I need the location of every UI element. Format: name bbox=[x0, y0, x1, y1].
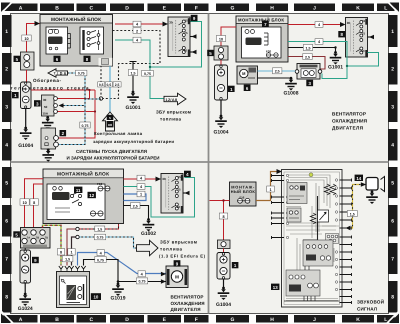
svg-text:МОНТАЖНЫЙ БЛОК: МОНТАЖНЫЙ БЛОК bbox=[238, 17, 284, 22]
horn ground bbox=[366, 190, 378, 204]
label 5 bbox=[14, 56, 21, 62]
label 4 TR teal bbox=[315, 39, 323, 45]
relay 3 TL bbox=[42, 95, 58, 116]
svg-text:H: H bbox=[270, 5, 274, 11]
label 6 (starter TR) bbox=[244, 85, 251, 91]
heater caption bbox=[11, 78, 89, 90]
right grid row label 1 bbox=[388, 15, 398, 47]
wire generator to ground bbox=[25, 109, 27, 129]
wire gauge labels 0.5 0.5 2.5 bbox=[98, 82, 121, 87]
EFI caption BL bbox=[159, 240, 206, 259]
svg-text:0,75: 0,75 bbox=[97, 258, 104, 262]
svg-text:6: 6 bbox=[391, 219, 394, 225]
indicator lamp dot bbox=[309, 173, 313, 177]
svg-text:12: 12 bbox=[89, 193, 94, 198]
label 0.75 black lower bbox=[136, 278, 147, 284]
svg-text:8: 8 bbox=[33, 201, 35, 205]
left grid row label 7 bbox=[2, 243, 12, 274]
wire cyan starter to alternator bbox=[258, 70, 296, 72]
top grid column label K bbox=[342, 4, 374, 12]
wire teal switch loop TR bbox=[347, 53, 379, 67]
svg-text:C: C bbox=[89, 317, 93, 323]
switch unit right pin stubs bbox=[340, 179, 352, 305]
svg-text:1: 1 bbox=[140, 193, 142, 197]
wire teal fan feed TR bbox=[288, 42, 347, 79]
wire red fuse to battery BR bbox=[223, 249, 225, 253]
bottom grid column label H bbox=[256, 315, 288, 323]
fuse link BR bbox=[218, 240, 231, 249]
svg-text:G1019: G1019 bbox=[110, 296, 125, 302]
svg-text:СИГНАЛ: СИГНАЛ bbox=[357, 307, 377, 312]
junction bbox=[88, 89, 90, 91]
switch unit inner wiring mesh bbox=[286, 175, 339, 301]
ignition sub-box in TL mounting block bbox=[80, 27, 104, 54]
svg-text:F: F bbox=[195, 317, 198, 323]
svg-text:ВЕНТИЛЯТОР: ВЕНТИЛЯТОР bbox=[171, 295, 204, 300]
label 1 blue BL bbox=[137, 191, 145, 197]
heater relay ground bbox=[42, 148, 54, 161]
svg-text:K: K bbox=[356, 5, 360, 11]
wire red fuse to generator bbox=[26, 70, 28, 82]
label 8 (ignition sub-box) bbox=[84, 56, 91, 62]
switch unit internal bus wires bbox=[284, 266, 340, 301]
svg-text:G1004: G1004 bbox=[213, 130, 228, 136]
switch stub pin 75 BL bbox=[183, 191, 190, 195]
fuse bottom BL bbox=[90, 211, 103, 216]
svg-text:G1001: G1001 bbox=[125, 105, 140, 111]
wire red block to fuse box left B bbox=[34, 184, 44, 228]
label 1 (battery TR) bbox=[228, 86, 235, 92]
switch unit inner panel 4 bbox=[286, 270, 320, 296]
svg-text:J: J bbox=[313, 5, 316, 11]
label 5 BL bbox=[13, 231, 20, 237]
right grid row label 3 bbox=[388, 91, 398, 122]
svg-text:15A: 15A bbox=[43, 112, 49, 116]
label 0.75 on teal bbox=[142, 71, 154, 77]
svg-text:B: B bbox=[55, 5, 59, 11]
label 4 blue upper bbox=[97, 250, 104, 256]
svg-text:3: 3 bbox=[5, 104, 8, 110]
svg-text:ОХЛАЖДЕНИЯ: ОХЛАЖДЕНИЯ bbox=[171, 301, 205, 306]
wire connector to generator BL bbox=[24, 248, 26, 250]
wire teal ignition switch loop TL bbox=[150, 22, 202, 68]
battery ground wire TR bbox=[220, 100, 222, 116]
charge lamp callout arrow bbox=[103, 112, 118, 131]
svg-text:G1008: G1008 bbox=[283, 91, 298, 97]
wire cyan-dash 0.75 to heater relay bbox=[58, 99, 101, 145]
wire black block to G1002 bbox=[124, 206, 149, 220]
relay ground bbox=[42, 116, 54, 130]
switch unit left pin stubs bbox=[272, 174, 285, 239]
ground G1004 TR bbox=[213, 115, 228, 136]
starter 10 BL bbox=[57, 272, 90, 308]
svg-text:5: 5 bbox=[391, 180, 394, 186]
wire teal block to switch loop BL bbox=[124, 178, 195, 218]
fuse holder 5 BL bbox=[21, 228, 51, 249]
svg-text:0,75: 0,75 bbox=[144, 72, 151, 76]
svg-text:G1024: G1024 bbox=[18, 306, 33, 312]
system caption TL bbox=[67, 149, 160, 160]
svg-text:G1001: G1001 bbox=[328, 65, 343, 71]
top grid column label C bbox=[77, 4, 107, 12]
wire red fuse to battery TR bbox=[220, 60, 222, 65]
left grid row label 5 bbox=[2, 167, 12, 198]
junction bbox=[334, 46, 336, 48]
svg-text:МОНТАЖНЫЙ БЛОК: МОНТАЖНЫЙ БЛОК bbox=[57, 170, 109, 177]
svg-text:8: 8 bbox=[391, 295, 394, 301]
junction teal TR bbox=[346, 65, 348, 67]
bottom grid column label G bbox=[216, 315, 249, 323]
svg-text:H: H bbox=[270, 317, 274, 323]
top grid column label A bbox=[4, 4, 38, 12]
right grid row label 8 bbox=[388, 281, 398, 313]
charge lamp caption bbox=[93, 131, 174, 144]
label 2.5 TR bbox=[303, 54, 312, 60]
wire blue loop BL bbox=[124, 194, 147, 201]
fuse link 5 TL bbox=[21, 52, 35, 70]
wire red drop to relay pin 30 bbox=[58, 90, 90, 99]
switch unit inner panel 3 bbox=[303, 240, 333, 266]
svg-text:ОХЛАЖДЕНИЯ: ОХЛАЖДЕНИЯ bbox=[332, 119, 368, 124]
svg-text:5: 5 bbox=[5, 180, 8, 186]
svg-text:ЗВУКОВОЙ: ЗВУКОВОЙ bbox=[357, 299, 384, 305]
label 4 on red bbox=[133, 21, 141, 27]
svg-text:2: 2 bbox=[391, 67, 394, 73]
svg-text:0,75: 0,75 bbox=[139, 280, 146, 284]
wire red-dash junction to block bbox=[78, 224, 119, 230]
label 2 (heater relay) bbox=[60, 130, 67, 136]
wire brown block to column switch bbox=[256, 172, 278, 201]
left grid row label 2 bbox=[2, 53, 12, 85]
label 1.5 on red-dash bbox=[95, 226, 105, 232]
bottom grid column label E bbox=[148, 315, 182, 323]
svg-text:1,5: 1,5 bbox=[97, 228, 102, 232]
label 3 (alternator TR) bbox=[306, 80, 313, 86]
fan motor BL bbox=[166, 266, 188, 288]
svg-text:1: 1 bbox=[5, 29, 8, 35]
svg-text:2,5: 2,5 bbox=[305, 55, 310, 59]
EFI callout arrow 12/A8 bbox=[164, 93, 186, 105]
relay sub-box BL bbox=[47, 184, 105, 220]
label 3 (relay) bbox=[34, 100, 41, 106]
ground G1004 BR bbox=[216, 287, 231, 308]
switch stub pin 75 TR bbox=[368, 35, 375, 39]
svg-text:ДВИГАТЕЛЯ: ДВИГАТЕЛЯ bbox=[171, 307, 201, 312]
label 8 (ignition switch TR) bbox=[338, 31, 345, 37]
label 8 BR bbox=[219, 213, 227, 219]
junction red BR bbox=[222, 199, 224, 201]
bottom grid column label D bbox=[110, 315, 144, 323]
svg-text:0,75: 0,75 bbox=[78, 72, 85, 76]
fuse F19 BL bbox=[97, 182, 110, 191]
svg-text:зарядки аккумуляторной батареи: зарядки аккумуляторной батареи bbox=[93, 139, 174, 144]
wire red feed TR bbox=[221, 27, 236, 46]
label 1.5 TR bbox=[303, 45, 312, 51]
svg-text:12/A8: 12/A8 bbox=[166, 98, 178, 102]
svg-text:МОНТАЖНЫЙ БЛОК: МОНТАЖНЫЙ БЛОК bbox=[51, 16, 101, 23]
svg-text:ЗБУ впрыском: ЗБУ впрыском bbox=[156, 110, 191, 115]
label 1 (battery BR) bbox=[232, 262, 239, 268]
ground G1002 bbox=[141, 218, 156, 237]
connector arrow brown bbox=[277, 169, 283, 174]
label 10 BL bbox=[20, 199, 29, 205]
generator 1 TL bbox=[21, 82, 32, 109]
right grid row label 2 bbox=[388, 53, 398, 85]
connector arrow at switch bbox=[163, 22, 169, 27]
starter connector chevron pins bbox=[59, 266, 86, 269]
svg-text:F19: F19 bbox=[97, 182, 103, 186]
svg-text:0,75: 0,75 bbox=[82, 124, 89, 128]
wire generator to ground BL bbox=[24, 283, 26, 294]
svg-text:СИСТЕМЫ ПУСКА ДВИГАТЕЛЯ: СИСТЕМЫ ПУСКА ДВИГАТЕЛЯ bbox=[76, 149, 147, 154]
border corner bevel bottom-left bbox=[1, 314, 11, 324]
top grid column label D bbox=[110, 4, 144, 12]
switch stub pin 50 bbox=[190, 50, 197, 54]
ground G1008 bbox=[283, 77, 298, 96]
ignition switch 9 TL bbox=[168, 17, 190, 57]
connector arrow into block TL bbox=[35, 21, 41, 26]
label 1.5 starter wire bbox=[62, 256, 73, 262]
label 4 on teal bbox=[133, 37, 141, 43]
ground G1019 bbox=[110, 283, 125, 302]
fuse link 5 TR bbox=[214, 46, 228, 60]
border corner bevel top-right bbox=[390, 3, 400, 13]
wire label 10 bbox=[22, 35, 31, 41]
svg-text:0,5: 0,5 bbox=[107, 83, 112, 87]
svg-text:6: 6 bbox=[5, 219, 8, 225]
bottom grid column label K bbox=[342, 315, 374, 323]
relay sub-box in TL mounting block bbox=[46, 27, 71, 54]
svg-text:8: 8 bbox=[5, 295, 8, 301]
alternator 3 TR bbox=[295, 64, 322, 80]
EFI callout arrow BL bbox=[137, 240, 159, 255]
svg-text:14: 14 bbox=[356, 176, 361, 181]
svg-text:1: 1 bbox=[70, 251, 72, 255]
ignition switch 4 BL bbox=[161, 174, 183, 214]
switch unit left rail contact circles bbox=[286, 174, 288, 238]
left grid row label 4 bbox=[2, 129, 12, 161]
label 1.5 yellow bbox=[347, 211, 357, 217]
junction teal bbox=[149, 66, 151, 68]
label 12 bbox=[88, 192, 96, 198]
starter motor 6 TR bbox=[237, 66, 258, 84]
wire red block to fuse box left A bbox=[25, 179, 44, 228]
svg-text:1,5: 1,5 bbox=[306, 46, 311, 50]
svg-text:7: 7 bbox=[391, 256, 394, 262]
open junction node bbox=[99, 97, 102, 100]
svg-text:D: D bbox=[125, 5, 129, 11]
ground G1001 TR bbox=[328, 51, 343, 70]
wire striped fusebox to starter bbox=[43, 225, 62, 265]
wire cyan charge-lamp from block bbox=[109, 66, 111, 112]
border corner bevel bottom-right bbox=[390, 314, 400, 324]
svg-text:Контрольная лампа: Контрольная лампа bbox=[94, 131, 143, 136]
svg-text:ЗБУ впрыском: ЗБУ впрыском bbox=[160, 240, 197, 245]
svg-text:M: M bbox=[175, 274, 179, 279]
label 0.75 black upper bbox=[95, 257, 106, 263]
bottom grid column label L bbox=[377, 315, 395, 323]
svg-text:8: 8 bbox=[222, 215, 224, 219]
EFI caption TL bbox=[156, 110, 191, 122]
top grid column label B bbox=[40, 4, 74, 12]
heater relay 2 TL bbox=[41, 128, 58, 149]
wire dark junction to starter bbox=[72, 237, 78, 266]
label 14 (horn) bbox=[355, 175, 363, 181]
svg-text:G1002: G1002 bbox=[141, 231, 156, 237]
svg-text:G1004: G1004 bbox=[216, 302, 231, 308]
connector arrow into horn bbox=[361, 182, 367, 187]
svg-text:топлива: топлива bbox=[160, 116, 182, 121]
wire yellow horn feed bbox=[352, 185, 361, 229]
svg-text:3: 3 bbox=[391, 104, 394, 110]
switch unit contact cluster bbox=[326, 234, 339, 244]
svg-text:2: 2 bbox=[136, 29, 138, 33]
switch unit center bus line bbox=[303, 196, 318, 240]
bottom grid column label J bbox=[294, 315, 335, 323]
label 6 (relay) bbox=[54, 56, 61, 62]
label 4 teal BL bbox=[137, 184, 145, 190]
ground G1024 bbox=[18, 293, 33, 312]
svg-text:7D: 7D bbox=[45, 237, 48, 240]
top grid column label L bbox=[377, 4, 395, 12]
label 4 TR red bbox=[315, 22, 323, 28]
svg-text:7A: 7A bbox=[27, 237, 30, 240]
relay sub-box TR bbox=[242, 27, 282, 58]
svg-text:A: A bbox=[19, 5, 23, 11]
svg-text:10: 10 bbox=[219, 37, 223, 41]
svg-text:Обогрева-: Обогрева- bbox=[33, 78, 61, 83]
label 2 on dashed bbox=[133, 28, 141, 34]
left grid row label 6 bbox=[2, 205, 12, 237]
label 8 starter wire bbox=[57, 249, 64, 255]
relay box with arrow bbox=[318, 210, 329, 222]
svg-text:50: 50 bbox=[44, 105, 48, 109]
svg-text:13: 13 bbox=[273, 285, 278, 290]
svg-text:7: 7 bbox=[5, 256, 8, 262]
battery 1 BR bbox=[217, 253, 230, 280]
wire red bus horizontal bbox=[31, 89, 95, 91]
label 8 BL bbox=[30, 199, 38, 205]
svg-text:7B: 7B bbox=[36, 237, 39, 240]
quadrant divider vertical bbox=[208, 14, 210, 314]
svg-text:0,75: 0,75 bbox=[97, 236, 104, 240]
label 1 starter wire bbox=[68, 249, 75, 255]
ground G1004 TL bbox=[18, 127, 33, 149]
svg-text:ДВИГАТЕЛЯ: ДВИГАТЕЛЯ bbox=[332, 126, 364, 131]
svg-text:10: 10 bbox=[22, 201, 26, 205]
svg-text:G: G bbox=[231, 5, 235, 11]
wire maroon block to alternator TR bbox=[288, 57, 325, 71]
svg-text:2,5: 2,5 bbox=[115, 83, 120, 87]
fan caption BL bbox=[171, 295, 205, 312]
right grid row label 6 bbox=[388, 205, 398, 237]
label 2.5 cyan bbox=[273, 68, 282, 74]
label 0.75 on 7/D6 wire bbox=[76, 70, 87, 76]
label 4 blue lower bbox=[138, 271, 145, 277]
wire blue starter to fan motor bbox=[78, 253, 167, 274]
battery 1 TR bbox=[215, 65, 228, 100]
label 1 (generator) bbox=[12, 92, 19, 98]
svg-text:G1004: G1004 bbox=[18, 143, 33, 149]
wire red feed BR bbox=[210, 201, 230, 241]
fan caption TR bbox=[332, 112, 368, 131]
horn caption bbox=[357, 299, 384, 312]
svg-text:G: G bbox=[231, 317, 235, 323]
label 1.5 bbox=[128, 70, 137, 76]
bottom grid column label B bbox=[40, 315, 74, 323]
wire cyan-dash junction to EFI arrow bbox=[78, 237, 137, 248]
svg-text:НЫЙ БЛОК: НЫЙ БЛОК bbox=[231, 189, 256, 194]
svg-text:1,5: 1,5 bbox=[131, 71, 136, 75]
svg-text:30: 30 bbox=[43, 98, 47, 102]
wire red battery feed to block TL bbox=[27, 24, 41, 53]
wire dash from relay pin 50 bbox=[59, 103, 86, 107]
callout arrow 7/D6 bbox=[48, 69, 68, 77]
svg-text:A: A bbox=[19, 317, 23, 323]
wire maroon junction to starter bbox=[67, 229, 78, 266]
switch unit inner panel 2 bbox=[287, 208, 301, 222]
svg-text:10: 10 bbox=[93, 295, 98, 300]
connector arrow TR bbox=[340, 22, 346, 27]
wire black to G1001 TR bbox=[288, 48, 336, 53]
svg-text:4: 4 bbox=[5, 143, 8, 149]
open junction B bbox=[76, 235, 79, 238]
starter internal wire stubs bbox=[61, 269, 84, 284]
label 9 (fan motor BL) bbox=[174, 260, 181, 266]
label 4 red BL bbox=[137, 175, 145, 181]
label 7 (fan relay) bbox=[262, 21, 269, 27]
switch unit right rail contact circles bbox=[335, 179, 337, 291]
svg-text:C: C bbox=[89, 5, 93, 11]
switch stub pin 75 bbox=[190, 34, 197, 38]
right grid row label 5 bbox=[388, 167, 398, 198]
junction bbox=[117, 280, 120, 283]
wire red block to ignition switch TR bbox=[288, 24, 341, 26]
switch unit inner panel 1 bbox=[287, 183, 307, 204]
horn speaker body bbox=[366, 177, 385, 192]
svg-text:7/D6: 7/D6 bbox=[54, 72, 67, 76]
generator 9 BL bbox=[20, 250, 31, 283]
svg-text:10: 10 bbox=[24, 37, 28, 41]
svg-text:D: D bbox=[125, 317, 129, 323]
top grid column label G bbox=[216, 4, 249, 12]
svg-text:0,5: 0,5 bbox=[99, 83, 104, 87]
wire dashed stub up from junction to block notch bbox=[100, 66, 102, 99]
connector arrow BL bbox=[156, 177, 162, 182]
T-cap connector 1.5 wire bbox=[130, 62, 137, 93]
label 13 (column switch unit) bbox=[271, 284, 279, 290]
svg-text:11: 11 bbox=[76, 188, 81, 193]
label 2.5 BL bbox=[131, 203, 140, 209]
right grid row label 4 bbox=[388, 129, 398, 161]
wire red block to ignition switch BL bbox=[124, 178, 157, 180]
svg-text:(1.3 EFI Endura E): (1.3 EFI Endura E) bbox=[159, 254, 206, 259]
battery ground BR bbox=[223, 279, 225, 288]
label 10 (starter BL) bbox=[91, 293, 101, 300]
wire red block to ignition switch TL bbox=[115, 23, 164, 25]
svg-text:И ЗАРЯДКИ АККУМУЛЯТОРНОЙ БАТАР: И ЗАРЯДКИ АККУМУЛЯТОРНОЙ БАТАРЕИ bbox=[67, 154, 160, 160]
top grid column label E bbox=[148, 4, 182, 12]
wire red branch pin 15A bbox=[58, 111, 96, 113]
top grid column label H bbox=[256, 4, 288, 12]
svg-text:1,5: 1,5 bbox=[350, 212, 355, 216]
mounting block TR bbox=[236, 16, 288, 62]
svg-text:L: L bbox=[384, 317, 387, 323]
junction bbox=[290, 77, 292, 79]
svg-text:1,5: 1,5 bbox=[65, 258, 70, 262]
label 10 TR bbox=[216, 36, 225, 42]
wire red drop to relay pin 15A and heater relay bbox=[59, 90, 96, 138]
